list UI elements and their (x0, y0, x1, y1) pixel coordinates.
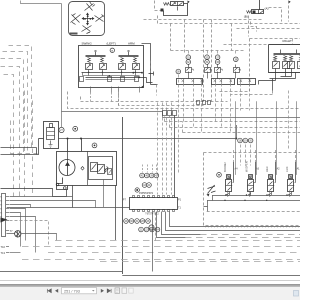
valve V2 arrow (260, 11, 264, 14)
toolbar nav first-page button (47, 289, 51, 293)
node circle 33a (186, 55, 191, 60)
wire dashed x211 drop (211, 20, 213, 79)
wire dash-dot bank bottom (207, 211, 300, 213)
svg-text:AUX: AUX (285, 166, 289, 172)
wire filter inlet (39, 138, 44, 140)
svg-text:P7: P7 (123, 198, 127, 201)
wire A3 feed (256, 101, 258, 175)
wire dashed pilot hose L3 (1, 59, 24, 154)
valve V1 drop (177, 7, 179, 11)
wire bank manifold y200 (207, 200, 300, 202)
wire main pressure x116 (115, 185, 117, 240)
wire dashed y28 right (237, 28, 301, 30)
wire filter outlet main (59, 138, 237, 140)
wire gauge stub (61, 111, 63, 127)
wire dashed x288 drop2 (288, 91, 290, 151)
wires A-port verticals2 (233, 150, 235, 162)
pilot valve arm unit (119, 56, 139, 57)
wire P supply from pilot box (142, 44, 151, 85)
node circle 36 (234, 57, 239, 62)
wire P tee tick (149, 72, 154, 76)
wire dashed shuttle downs (183, 84, 185, 122)
pilot valve box PV1 (79, 46, 144, 88)
valve V1 body (171, 2, 184, 6)
svg-text:HEC: HEC (265, 166, 269, 172)
node circle 24 (92, 143, 97, 148)
pump arrow (66, 163, 70, 176)
pump gauge port (81, 167, 84, 171)
svg-text:P4P5P4P3P2: P4P5P4P3P2 (139, 193, 154, 195)
svg-text:A4: A4 (235, 168, 239, 171)
wire case line (72, 186, 74, 208)
wire dashed shuttle left (151, 61, 157, 96)
node circle 35a (215, 55, 220, 60)
wire dashed bus y121 (165, 116, 301, 122)
svg-text:T2: T2 (0, 201, 3, 203)
port box PB3 (173, 111, 177, 116)
manifold bar MB1 (177, 79, 203, 85)
wire dashed V2 drop (251, 22, 257, 32)
filter drain (49, 141, 53, 148)
wire pilot supply left vertical (62, 4, 301, 118)
wire dashed y23 (158, 16, 301, 24)
valve wedge mark (141, 85, 145, 88)
pump drain port 1 (56, 183, 59, 186)
pilot valve swing-left unit (86, 56, 106, 57)
svg-text:T4: T4 (0, 209, 3, 211)
wire dashed y19 (144, 19, 263, 21)
wire dashed PV2 bottom (231, 91, 273, 95)
pilot valve box PV2 (269, 45, 301, 73)
joystick center dots (87, 15, 89, 17)
wire long horizontal y207 (7, 207, 130, 209)
node circle 17 (217, 173, 222, 178)
wire pump suction 2 (81, 139, 83, 152)
wire gauge link (7, 234, 57, 241)
shuttle valve SV4 (235, 65, 237, 68)
toolbar icon page1 (115, 288, 120, 293)
wire dashed y261 (100, 261, 300, 263)
wire dashed PV1 drop b (111, 93, 113, 102)
joystick lever bottom (82, 26, 92, 34)
wire dashed x292 stub (292, 39, 294, 45)
wires dashed circle drops (240, 145, 242, 166)
wire dashed shuttle downs2 (240, 84, 242, 111)
node a circle (110, 48, 114, 52)
terminal block arrow (1, 218, 8, 223)
wire manifold feed (174, 115, 176, 197)
wire main pressure x122 (122, 117, 124, 274)
shuttle valve SV2 (207, 65, 209, 68)
wire PV2 port bus (270, 73, 296, 91)
manifold bar MB2 (212, 79, 235, 85)
wire pin2 (10, 201, 96, 208)
pump box (57, 152, 117, 186)
node junction filter-pump (67, 138, 69, 140)
wire dashed bus y132 (183, 122, 301, 133)
wire dashed pilot hose L5 (4, 75, 14, 197)
wire dashed hose bend 1 (11, 121, 38, 154)
wire dashed x288 (288, 1, 290, 22)
filter box F1 (44, 122, 59, 149)
toolbar corner glyph (294, 291, 299, 297)
wire dashed shuttle ups (188, 51, 190, 56)
wire dashed y44 approach (224, 44, 269, 46)
wire A2 feed (276, 101, 278, 175)
node circle 35b (215, 60, 220, 65)
svg-text:T3: T3 (0, 205, 3, 207)
wire manifold drop x152 (152, 212, 154, 272)
valve V2 body (252, 10, 264, 14)
wire A4 feed (235, 101, 237, 175)
regulator valve b (98, 165, 105, 174)
node circle 44 (147, 183, 152, 188)
joystick lever top (85, 2, 96, 11)
svg-text:(A): (A) (265, 6, 269, 10)
wire dashed pilot hose L6 (24, 91, 26, 197)
pilot cluster1 port boxes (80, 77, 84, 82)
toolbar separator line (0, 280, 300, 281)
pilot box bus y77.3 (86, 77, 147, 79)
regulator spring (105, 167, 109, 173)
wire dashed x181 drop (178, 75, 180, 173)
port box PB1 (163, 111, 167, 116)
valve V1 arrows (172, 3, 183, 6)
valve V2 solenoid block (253, 11, 256, 14)
svg-text:(B): (B) (244, 15, 248, 19)
toolbar page field (62, 288, 97, 294)
joystick lever right (95, 15, 104, 22)
gauge circle X (15, 231, 21, 237)
svg-text:T1: T1 (178, 207, 182, 210)
wire bank top vertical (236, 125, 238, 139)
wire dashed pilot hose L4 (1, 67, 20, 197)
wires dashed into manifold (157, 103, 159, 195)
wire hose y246 (22, 246, 300, 248)
valve V2 flag (289, 1, 291, 4)
wire hose y252 (48, 252, 300, 254)
wire pump drain down (1, 189, 67, 197)
toolbar field dropdown (92, 290, 95, 292)
valve V2 spring (247, 11, 251, 14)
joystick lever left (71, 14, 81, 25)
pump case foot (57, 178, 68, 190)
wire dashed x249 drop (218, 39, 250, 92)
wire dashed pilot hose L1 (9, 46, 32, 151)
wire pin1 (10, 196, 73, 198)
wire bank left drop (204, 196, 213, 212)
svg-text:A1: A1 (297, 168, 301, 171)
joystick legend box (69, 2, 105, 36)
schematic bottom border right (122, 275, 300, 277)
node circle 39 (149, 173, 154, 178)
pilot box bus y72.7 (82, 72, 143, 74)
filter element (47, 128, 55, 140)
schematic bottom border left (0, 271, 122, 273)
manifold block (130, 198, 178, 210)
pump box divider (87, 151, 89, 185)
node circle 43 (142, 183, 147, 188)
wire hose y259 (22, 259, 300, 261)
port boxes under bars (197, 101, 200, 105)
node circles below manifold row2 (139, 227, 144, 232)
wire A1 feed (296, 101, 298, 175)
terminal block body (2, 194, 6, 237)
wires manifold to right staircase (170, 212, 301, 227)
valve V2 vertical line (259, 0, 261, 10)
wire hose return (1, 148, 37, 155)
pilot cluster2 drain (259, 81, 276, 85)
regulator box (89, 157, 113, 180)
svg-text:BOOM2: BOOM2 (223, 162, 227, 172)
valve V1 loop (164, 4, 188, 16)
wire shuttle left drop (147, 78, 158, 85)
pump drive shaft (67, 152, 69, 163)
wire dashed from PV1 port3 (119, 89, 204, 106)
node circles below manifold row1 (124, 219, 129, 224)
node circle 34a (205, 55, 210, 60)
node circle filled (135, 188, 139, 192)
node circle 38 (176, 69, 181, 74)
svg-text:(LEFT): (LEFT) (107, 42, 116, 46)
node circle 27b (73, 126, 78, 131)
wire dashed x248 drop (248, 16, 250, 37)
manifold top ports (133, 196, 135, 198)
svg-text:P1: P1 (178, 198, 182, 201)
wires solenoid downs (229, 191, 231, 195)
wire dash-dot V1 left (155, 1, 161, 11)
manifold bottom ports (133, 210, 135, 212)
wire regulator drain (103, 180, 105, 208)
toolbar top gradient edge (0, 284, 300, 287)
wire dashed y38 right (250, 38, 301, 40)
valve V1 tank block (161, 9, 164, 12)
node circle 34b (205, 60, 210, 65)
svg-text:RIGHT: RIGHT (283, 39, 293, 43)
svg-text:ARM: ARM (128, 42, 135, 46)
wire dashed x184 drop (184, 20, 186, 55)
wire pump suction (67, 139, 69, 152)
toolbar icon page2 (122, 288, 127, 293)
joystick label plate (70, 33, 78, 35)
valve V1 pilot flag (188, 1, 190, 4)
node circle 27 (59, 127, 64, 132)
svg-text:a: a (111, 49, 113, 53)
toolbar icon page3 (129, 288, 133, 293)
wire T13 link (10, 252, 21, 254)
svg-text:T7: T7 (10, 229, 14, 233)
wires manifold staircase dashed (162, 212, 201, 235)
terminal block pins (6, 196, 9, 198)
wire dashed pilot hose L7 (32, 101, 34, 197)
shuttle valve SV1 (188, 65, 190, 68)
toolbar nav last-page button (107, 289, 111, 293)
node circle 40 (145, 173, 150, 178)
wire dashed x203 drop (203, 20, 205, 102)
wire dashed x211 drop2 (211, 85, 213, 102)
pilot cluster2 ports (276, 69, 292, 81)
wire dotted y228 (205, 227, 300, 229)
wire dashed below block (155, 213, 157, 241)
wires dashed circle stubs (142, 165, 144, 173)
joystick center cross (83, 14, 94, 25)
toolbar nav next button (101, 289, 104, 293)
wire dashed bus y101 (81, 97, 228, 102)
wire dashed V2 to right (269, 8, 282, 22)
wire dashed y50 bus (171, 50, 246, 52)
wire bank manifold y195 (212, 195, 300, 197)
svg-text:T1: T1 (0, 197, 3, 199)
wire hose y240 (55, 240, 300, 242)
manifold bar MB3 (238, 79, 256, 85)
wire hose left drop (1, 139, 39, 155)
joystick cross arrowheads (82, 13, 95, 26)
wire dashed x170 drop (170, 24, 172, 51)
filter cap (50, 124, 53, 128)
wire dashed pin x48 (10, 221, 49, 247)
node circle 42 (154, 173, 159, 178)
regulator valve a (91, 163, 98, 172)
pilot valve right unit2 (289, 54, 304, 55)
svg-text:W.OPEN: W.OPEN (244, 161, 248, 172)
solenoid bank dashed box (204, 153, 301, 226)
pump circle P1 (59, 160, 75, 176)
toolbar nav prev button (55, 289, 58, 293)
svg-text:T13: T13 (1, 251, 6, 255)
wire dashed x231 drop (231, 24, 233, 51)
node circle 33b (186, 60, 191, 65)
valve V1 spring (164, 3, 170, 6)
svg-text:T5: T5 (0, 213, 3, 215)
wire dashed bus y127 (170, 116, 301, 128)
pump drain port 2 (64, 187, 67, 190)
pilot valve right unit1 (274, 54, 289, 55)
node circle 41 (140, 173, 145, 178)
node circles pair right (238, 138, 243, 143)
wire dashed from PV1 port1 (68, 92, 301, 109)
relief valve RV2 (208, 185, 216, 194)
node circle 25 (149, 225, 154, 230)
wire dashed pilot hose L2 (3, 52, 28, 151)
page corner line top-left (21, 1, 62, 4)
wire dashed PV1 drop c (118, 93, 120, 106)
wires terminal staircase (10, 205, 31, 208)
shuttle valve SV3 (217, 65, 219, 68)
pilot cluster1 internal bus (83, 73, 140, 80)
svg-text:T10: T10 (1, 245, 6, 249)
toolbar background (0, 284, 300, 300)
svg-text:A2: A2 (277, 168, 281, 171)
port box PB2 (168, 111, 172, 116)
wire dashed PV1 drop a (90, 93, 92, 102)
pilot cluster1 port lines (91, 87, 140, 93)
svg-text:SWING: SWING (82, 42, 93, 46)
